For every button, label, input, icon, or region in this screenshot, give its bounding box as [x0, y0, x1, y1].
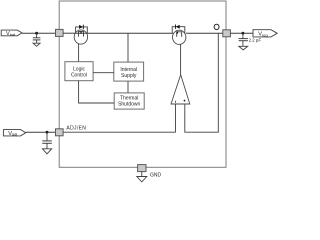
junction dot at adj cap — [46, 131, 49, 134]
block Internal Supply — [114, 62, 144, 81]
wire IN pin to Q1 — [63, 32, 75, 34]
flag VREG — [253, 30, 277, 38]
ground symbol at GND pin — [137, 172, 147, 182]
svg-text:Shutdown: Shutdown — [118, 102, 140, 108]
diode D1 body diode of Q1 — [76, 25, 88, 34]
junction dot at input cap — [35, 32, 38, 35]
diode D2 body diode of Q2 — [172, 25, 185, 34]
wire ADJ/EN pin to amp - input — [63, 131, 175, 133]
wire main rail to Internal Supply — [127, 33, 129, 62]
wire Q2 to OUT pin — [186, 32, 223, 34]
ground symbol at input cap — [33, 43, 40, 46]
transistor Q1 (pass PMOS, circle symbol) — [74, 30, 87, 44]
wire through Q1 to Q2 — [75, 32, 173, 34]
ground symbol at adj cap — [42, 149, 51, 154]
wire Logic Control to Thermal Shutdown — [79, 81, 115, 103]
wire amp - input from ADJ/EN rail — [175, 104, 177, 132]
ground symbol at output cap — [239, 46, 248, 50]
svg-text:Vadj: Vadj — [8, 131, 17, 137]
svg-text:GND: GND — [150, 172, 162, 178]
wire Q2 gate down to error amplifier output — [180, 44, 182, 74]
label 2.2 uF — [249, 37, 262, 42]
junction dot at output cap — [242, 32, 245, 35]
wire VADJ flag to ADJ/EN pin — [26, 131, 56, 133]
wire Q1 gate to Logic Control — [78, 44, 80, 62]
svg-text:Supply: Supply — [121, 73, 137, 79]
svg-text:Control: Control — [71, 72, 87, 78]
pin GND (square on bottom border) — [138, 165, 146, 172]
block Logic Control — [65, 62, 93, 81]
flag VBAT — [1, 30, 22, 37]
pin ADJ/EN (square on left border) — [56, 129, 64, 136]
capacitor COUT — [239, 33, 248, 46]
IC boundary box — [59, 1, 226, 167]
label ADJ/EN — [66, 126, 86, 132]
block Thermal Shutdown — [114, 93, 144, 109]
wire OUT pin to VREG flag — [230, 32, 253, 34]
wire VBAT flag to IN pin — [22, 32, 56, 34]
svg-text:Vreg: Vreg — [258, 32, 268, 38]
pin OUT (square on right border) — [223, 30, 231, 37]
capacitor CIN — [33, 33, 41, 43]
svg-text:2.2 µF: 2.2 µF — [249, 37, 262, 42]
op-amp error amplifier U1 — [171, 75, 190, 104]
wire feedback from output down to amp + input — [185, 33, 219, 132]
node O label — [214, 24, 219, 29]
wire Internal Supply to Thermal Shutdown — [127, 81, 129, 93]
svg-text:Vbat: Vbat — [6, 31, 16, 37]
svg-text:ADJ/EN: ADJ/EN — [66, 126, 86, 132]
transistor Q2 (pass PMOS, circle symbol) — [173, 30, 186, 44]
flag VADJ — [3, 130, 25, 137]
wire Logic Control to Internal Supply — [93, 72, 114, 74]
pin IN (square on left border) — [56, 29, 64, 36]
capacitor CADJ — [42, 132, 52, 149]
label GND — [150, 172, 162, 178]
